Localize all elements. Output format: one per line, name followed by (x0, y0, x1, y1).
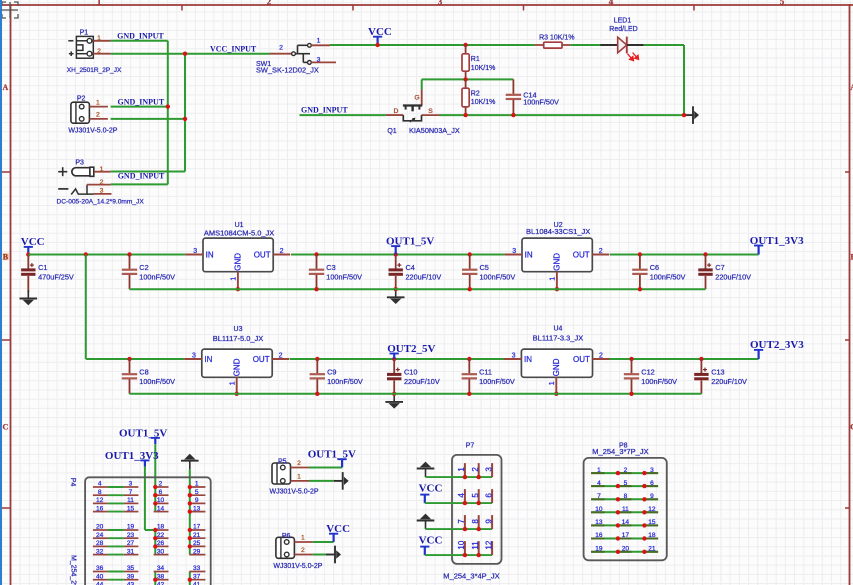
svg-text:P6: P6 (282, 533, 291, 540)
svg-text:35: 35 (127, 565, 135, 572)
svg-text:1: 1 (97, 35, 101, 42)
svg-text:14: 14 (157, 505, 165, 512)
svg-text:5: 5 (471, 493, 480, 498)
svg-text:17: 17 (193, 524, 201, 531)
svg-text:220uF/10V: 220uF/10V (406, 272, 442, 281)
svg-text:1: 1 (231, 277, 238, 281)
svg-text:BL1117-5.0_JX: BL1117-5.0_JX (213, 334, 264, 343)
svg-text:P5: P5 (278, 459, 287, 466)
svg-text:44: 44 (96, 582, 104, 585)
svg-text:P1: P1 (80, 30, 89, 37)
svg-text:GND: GND (234, 253, 243, 271)
svg-text:C11: C11 (479, 368, 492, 377)
svg-text:Red/LED: Red/LED (609, 26, 637, 33)
svg-text:15: 15 (648, 519, 656, 526)
svg-text:2: 2 (96, 112, 100, 119)
svg-text:2: 2 (267, 0, 272, 7)
svg-text:3: 3 (193, 248, 197, 255)
svg-text:C: C (3, 422, 9, 431)
svg-text:34: 34 (157, 565, 165, 572)
svg-text:36: 36 (96, 565, 104, 572)
svg-text:100nF/50V: 100nF/50V (650, 272, 686, 281)
svg-text:WJ301V-5.0-2P: WJ301V-5.0-2P (270, 489, 319, 496)
svg-text:B: B (3, 252, 9, 261)
svg-text:3: 3 (100, 188, 104, 195)
svg-text:42: 42 (157, 582, 165, 585)
svg-text:2: 2 (471, 467, 480, 472)
svg-text:3: 3 (512, 248, 516, 255)
svg-text:18: 18 (648, 532, 656, 539)
svg-text:2: 2 (599, 352, 603, 359)
svg-text:100nF/50V: 100nF/50V (641, 377, 677, 386)
svg-text:7: 7 (129, 489, 133, 496)
svg-text:IN: IN (524, 355, 532, 364)
svg-text:U4: U4 (553, 326, 562, 333)
svg-text:13: 13 (193, 505, 201, 512)
svg-text:2: 2 (297, 460, 301, 467)
svg-text:28: 28 (96, 540, 104, 547)
svg-text:R3 10K/1%: R3 10K/1% (539, 35, 574, 42)
svg-text:R2: R2 (471, 91, 480, 98)
svg-text:C8: C8 (139, 368, 148, 377)
svg-text:41: 41 (193, 582, 201, 585)
svg-text:8: 8 (98, 489, 102, 496)
svg-text:R1: R1 (471, 56, 480, 63)
svg-text:6: 6 (650, 480, 654, 487)
svg-text:10K/1%: 10K/1% (471, 99, 496, 106)
svg-text:IN: IN (525, 250, 533, 259)
svg-text:WJ301V-5.0-2P: WJ301V-5.0-2P (68, 128, 117, 135)
svg-text:VCC: VCC (419, 535, 443, 547)
svg-text:OUT1_3V3: OUT1_3V3 (105, 450, 159, 462)
svg-text:1: 1 (301, 535, 305, 542)
svg-text:11: 11 (622, 506, 629, 513)
svg-text:2: 2 (624, 467, 628, 474)
svg-text:IN: IN (204, 355, 212, 364)
svg-text:2: 2 (279, 44, 283, 51)
svg-text:C7: C7 (715, 263, 724, 272)
svg-text:1: 1 (457, 467, 466, 472)
svg-text:43: 43 (127, 582, 135, 585)
svg-text:2: 2 (599, 248, 603, 255)
svg-text:GND_INPUT: GND_INPUT (118, 172, 165, 181)
svg-text:1: 1 (100, 166, 104, 173)
svg-text:38: 38 (157, 573, 165, 580)
svg-text:10: 10 (595, 506, 603, 513)
svg-text:9: 9 (650, 493, 654, 500)
svg-text:100nF/50V: 100nF/50V (326, 272, 362, 281)
svg-text:3: 3 (512, 352, 516, 359)
svg-text:OUT: OUT (253, 355, 270, 364)
svg-text:C10: C10 (404, 367, 417, 376)
svg-text:WJ301V-5.0-2P: WJ301V-5.0-2P (273, 563, 322, 570)
svg-text:10: 10 (157, 497, 165, 504)
svg-text:C4: C4 (406, 263, 415, 272)
svg-text:11: 11 (471, 541, 480, 550)
svg-text:GND: GND (553, 253, 562, 271)
svg-text:3: 3 (438, 0, 443, 7)
svg-text:3: 3 (192, 352, 196, 359)
svg-text:1: 1 (317, 37, 321, 44)
svg-text:G: G (414, 94, 419, 101)
svg-text:4: 4 (457, 493, 466, 498)
svg-text:SW_SK-12D02_JX: SW_SK-12D02_JX (256, 66, 319, 75)
svg-text:3: 3 (129, 481, 133, 488)
svg-text:100nF/50V: 100nF/50V (139, 272, 175, 281)
svg-text:220uF/10V: 220uF/10V (404, 377, 440, 386)
svg-text:DC-005-20A_14.2*9.0mm_JX: DC-005-20A_14.2*9.0mm_JX (57, 199, 145, 206)
svg-text:M_254_3*7P_JX: M_254_3*7P_JX (592, 447, 648, 456)
svg-text:30: 30 (157, 548, 165, 555)
svg-text:100nF/50V: 100nF/50V (327, 377, 363, 386)
svg-text:C12: C12 (641, 368, 654, 377)
svg-text:33: 33 (193, 565, 201, 572)
svg-text:27: 27 (127, 540, 135, 547)
svg-text:C9: C9 (327, 368, 336, 377)
svg-text:3: 3 (650, 467, 654, 474)
svg-text:10K/1%: 10K/1% (471, 65, 496, 72)
svg-text:2: 2 (301, 547, 305, 554)
svg-text:VCC: VCC (419, 483, 443, 495)
svg-text:C2: C2 (139, 263, 148, 272)
svg-text:1: 1 (97, 0, 102, 7)
svg-text:39: 39 (127, 573, 135, 580)
svg-text:1: 1 (549, 381, 556, 385)
svg-text:9: 9 (484, 519, 493, 524)
svg-text:3: 3 (317, 57, 321, 64)
svg-text:20: 20 (622, 546, 630, 553)
svg-text:3: 3 (484, 467, 493, 472)
svg-text:C3: C3 (326, 263, 335, 272)
svg-text:220uF/10V: 220uF/10V (711, 377, 747, 386)
svg-text:KIA50N03A_JX: KIA50N03A_JX (409, 126, 460, 135)
svg-text:1: 1 (229, 381, 236, 385)
svg-text:C1: C1 (38, 263, 47, 272)
svg-text:LED1: LED1 (614, 18, 632, 25)
svg-text:P7: P7 (466, 442, 475, 449)
svg-text:19: 19 (127, 524, 135, 531)
svg-text:5: 5 (780, 0, 785, 7)
svg-text:21: 21 (193, 532, 201, 539)
svg-text:1: 1 (597, 467, 601, 474)
svg-text:16: 16 (595, 532, 603, 539)
svg-text:1: 1 (297, 474, 301, 481)
svg-text:GND_INPUT: GND_INPUT (117, 32, 164, 41)
svg-text:12: 12 (96, 497, 104, 504)
svg-text:4: 4 (609, 0, 614, 7)
svg-text:1: 1 (195, 481, 199, 488)
svg-text:5: 5 (195, 489, 199, 496)
svg-text:4: 4 (98, 481, 102, 488)
svg-text:OUT: OUT (254, 250, 271, 259)
svg-text:GND_INPUT: GND_INPUT (118, 98, 165, 107)
svg-text:AMS1084CM-5.0_JX: AMS1084CM-5.0_JX (204, 229, 274, 238)
svg-text:29: 29 (193, 548, 201, 555)
svg-text:11: 11 (127, 497, 134, 504)
svg-text:Q1: Q1 (387, 128, 396, 135)
svg-text:21: 21 (648, 546, 656, 553)
svg-text:100nF/50V: 100nF/50V (479, 377, 515, 386)
svg-text:6: 6 (159, 489, 163, 496)
svg-text:13: 13 (595, 519, 603, 526)
svg-text:19: 19 (595, 546, 603, 553)
svg-text:P3: P3 (75, 160, 84, 167)
svg-text:20: 20 (96, 524, 104, 531)
svg-text:S: S (428, 108, 433, 115)
svg-text:2: 2 (279, 352, 283, 359)
svg-text:23: 23 (127, 532, 135, 539)
svg-text:17: 17 (622, 532, 630, 539)
svg-text:VCC_INPUT: VCC_INPUT (210, 44, 257, 53)
svg-text:26: 26 (157, 540, 165, 547)
svg-text:220uF/10V: 220uF/10V (715, 272, 751, 281)
svg-text:37: 37 (193, 573, 201, 580)
svg-text:100nF/50V: 100nF/50V (480, 272, 516, 281)
svg-text:470uF/25V: 470uF/25V (38, 272, 74, 281)
svg-text:8: 8 (624, 493, 628, 500)
svg-text:12: 12 (648, 506, 656, 513)
svg-text:1: 1 (550, 277, 557, 281)
svg-text:1: 1 (96, 99, 100, 106)
svg-text:2: 2 (100, 179, 104, 186)
svg-text:22: 22 (157, 532, 165, 539)
svg-text:OUT: OUT (573, 250, 590, 259)
svg-text:8: 8 (471, 519, 480, 524)
svg-text:XH_2501R_2P_JX: XH_2501R_2P_JX (67, 67, 122, 74)
svg-text:C6: C6 (650, 263, 659, 272)
svg-text:BL1117-3.3_JX: BL1117-3.3_JX (533, 334, 584, 343)
svg-text:7: 7 (457, 519, 466, 524)
svg-text:BL1084-33CS1_JX: BL1084-33CS1_JX (526, 227, 590, 236)
svg-text:40: 40 (96, 573, 104, 580)
svg-text:M_254_3*4P_JX: M_254_3*4P_JX (443, 571, 499, 580)
svg-text:GND: GND (552, 358, 561, 376)
svg-text:IN: IN (206, 250, 214, 259)
svg-text:2: 2 (280, 248, 284, 255)
svg-text:9: 9 (195, 497, 199, 504)
svg-text:A: A (3, 83, 9, 92)
svg-text:OUT1_5V: OUT1_5V (308, 449, 356, 461)
svg-text:32: 32 (96, 548, 104, 555)
svg-text:7: 7 (597, 493, 601, 500)
svg-text:P2: P2 (77, 95, 86, 102)
svg-text:M_254_2*22P_JX: M_254_2*22P_JX (69, 555, 76, 585)
svg-text:C5: C5 (480, 263, 489, 272)
svg-text:OUT1_5V: OUT1_5V (119, 427, 167, 439)
svg-text:12: 12 (484, 540, 493, 549)
svg-text:100nF/50V: 100nF/50V (139, 377, 175, 386)
svg-text:OUT: OUT (573, 355, 590, 364)
svg-text:2: 2 (97, 48, 101, 55)
svg-text:18: 18 (157, 524, 165, 531)
svg-text:4: 4 (597, 480, 601, 487)
svg-text:10: 10 (457, 540, 466, 549)
svg-text:2: 2 (159, 481, 163, 488)
svg-text:25: 25 (193, 540, 201, 547)
svg-text:16: 16 (96, 505, 104, 512)
svg-text:5: 5 (624, 480, 628, 487)
svg-text:14: 14 (622, 519, 630, 526)
svg-text:D: D (393, 108, 398, 115)
svg-text:15: 15 (127, 505, 135, 512)
svg-text:U3: U3 (234, 326, 243, 333)
svg-text:24: 24 (96, 532, 104, 539)
svg-text:31: 31 (127, 548, 135, 555)
svg-text:100nF/50V: 100nF/50V (523, 98, 559, 107)
svg-text:GND_INPUT: GND_INPUT (301, 105, 348, 114)
svg-text:GND: GND (233, 358, 242, 376)
svg-text:6: 6 (484, 493, 493, 498)
svg-text:C13: C13 (711, 367, 724, 376)
svg-text:P4: P4 (69, 478, 76, 487)
